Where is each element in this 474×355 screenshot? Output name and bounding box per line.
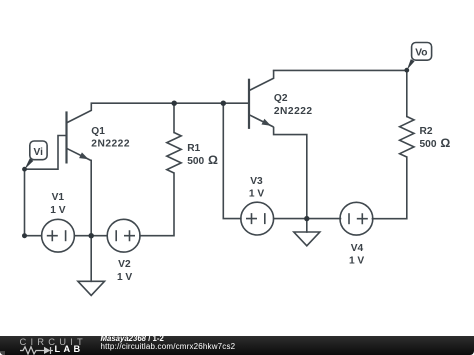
svg-text:V3: V3	[250, 176, 263, 187]
wire R2 top lead	[406, 70, 408, 116]
svg-text:Vo: Vo	[415, 48, 427, 59]
svg-text:V1: V1	[52, 192, 65, 203]
svg-text:1 V: 1 V	[117, 272, 132, 283]
wire Vi node to Q1 base	[25, 136, 66, 170]
svg-text:1 V: 1 V	[249, 189, 264, 200]
svg-text:R1: R1	[187, 143, 200, 154]
svg-text:2N2222: 2N2222	[274, 106, 313, 117]
wire mid vertical to V3	[223, 103, 241, 218]
node junction dot V3-V4 / ground 2	[304, 216, 309, 221]
svg-text:R2: R2	[420, 126, 433, 137]
transistor Q1	[67, 103, 130, 163]
svg-text:1 V: 1 V	[349, 256, 364, 267]
node junction dot V1-V2 / Q1 emitter	[89, 233, 94, 238]
node junction dot at V1 negative terminal corner	[22, 233, 27, 238]
wire V2 to R1 bottom	[140, 173, 174, 236]
svg-text:500 Ω: 500 Ω	[187, 153, 218, 167]
svg-text:Q1: Q1	[91, 126, 105, 137]
svg-text:1 V: 1 V	[50, 205, 65, 216]
resistor R1	[167, 133, 218, 174]
transistor Q2	[249, 70, 313, 218]
wire V1 to V2	[74, 235, 107, 237]
voltage source V4	[340, 202, 373, 266]
svg-text:Vi: Vi	[33, 147, 43, 158]
svg-text:500 Ω: 500 Ω	[420, 136, 451, 150]
voltage source V1	[42, 192, 75, 252]
flag Vi	[22, 141, 47, 172]
wire ground 2 lead	[306, 219, 308, 232]
CircuitLab logo	[20, 338, 87, 345]
wire R1 top lead	[173, 103, 175, 132]
svg-text:Q2: Q2	[274, 93, 288, 104]
svg-text:2N2222: 2N2222	[91, 139, 130, 150]
wire V3 to V4	[274, 218, 341, 220]
voltage source V2	[107, 219, 140, 283]
ground (left, under Q1 emitter)	[78, 281, 105, 295]
wire top right rail Q2 collector to Vo	[274, 69, 407, 71]
ground (right, under Q2 emitter)	[294, 232, 320, 246]
footer url text	[101, 343, 236, 350]
footer bar	[0, 336, 474, 355]
node junction dot on top rail at mid vertical	[221, 101, 226, 106]
flag Vo	[404, 43, 431, 73]
voltage source V3	[241, 176, 274, 235]
resistor R2	[400, 117, 451, 158]
svg-text:V2: V2	[118, 259, 131, 270]
footer author and schematic title	[101, 335, 164, 342]
wire Q1 emitter down to ground	[90, 160, 92, 281]
wire Vi node down-left rail to V1	[25, 169, 42, 236]
corner grip	[0, 351, 5, 355]
wire V4 to R2 bottom	[372, 157, 406, 219]
wire top rail Q1 collector to Q2 base	[91, 102, 248, 104]
node junction dot on top rail at R1	[172, 101, 177, 106]
svg-text:V4: V4	[351, 243, 364, 254]
